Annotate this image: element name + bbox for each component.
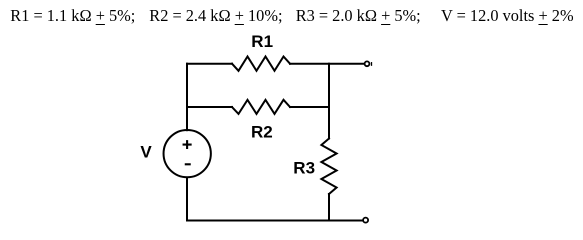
wire: bottom bbox=[187, 220, 362, 222]
resistor R2 bbox=[232, 100, 290, 114]
terminal T1 (top right, open circle) bbox=[365, 61, 372, 66]
wire: left rail lower bbox=[186, 178, 188, 221]
wire: right rail lower bbox=[328, 194, 330, 221]
wire: left rail upper bbox=[186, 64, 188, 131]
wire: right rail upper (node from top wire down to R2) bbox=[328, 64, 330, 107]
terminal T2 (bottom right, open circle) bbox=[363, 218, 368, 223]
voltage source V (circle) bbox=[164, 130, 211, 177]
wire: top right segment to terminal bbox=[290, 63, 364, 65]
value label line: component values bbox=[10, 6, 135, 26]
minus sign inside source bbox=[186, 163, 190, 165]
label R1 bbox=[251, 32, 273, 51]
wire: R2 row right segment bbox=[290, 106, 329, 108]
svg-text:R2: R2 bbox=[251, 123, 273, 142]
plus sign inside source bbox=[184, 141, 191, 148]
wire: R2 row left segment bbox=[187, 106, 232, 108]
svg-text:V: V bbox=[140, 143, 152, 162]
label R3 bbox=[293, 158, 315, 177]
svg-text:R3: R3 bbox=[293, 158, 315, 177]
wire: top left segment bbox=[187, 63, 232, 65]
label R2 bbox=[251, 123, 273, 142]
wire: right rail middle (R2 junction down to R3) bbox=[328, 107, 330, 139]
resistor R1 bbox=[232, 57, 290, 71]
svg-text:R1: R1 bbox=[251, 32, 273, 51]
resistor R3 bbox=[321, 139, 336, 195]
label V bbox=[140, 143, 152, 162]
